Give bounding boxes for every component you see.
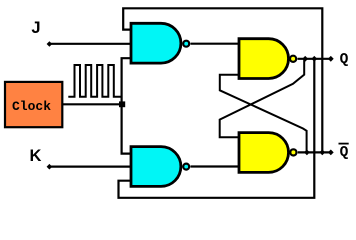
- NAND gate G4 (Q-bar latch gate, yellow): [239, 133, 289, 173]
- wire Q-bar output line: [298, 151, 331, 153]
- svg-text:J: J: [31, 19, 40, 37]
- wire Q cross-coupling to G4 upper input: [220, 59, 305, 137]
- G4 output bubble: [290, 149, 296, 155]
- node Q junction 1 (to cross-coupling): [302, 56, 308, 62]
- NAND gate G1 (J steering gate, cyan): [131, 23, 181, 63]
- clock generator box: [5, 82, 62, 127]
- G1 output bubble: [183, 41, 189, 47]
- wire J to G1 middle input: [49, 43, 131, 45]
- node Q-bar output terminal: [328, 150, 334, 156]
- node clock junction: [119, 101, 125, 107]
- G2 output bubble: [183, 164, 189, 170]
- NAND gate G3 (Q latch gate, yellow): [239, 39, 288, 79]
- svg-text:K: K: [30, 147, 42, 165]
- wire Q-bar cross-coupling to G3 lower input: [220, 75, 307, 153]
- wire K to G2 middle input: [49, 166, 131, 168]
- node Q-bar junction 2 (to Q-bar feedback): [319, 150, 325, 156]
- node Q output terminal: [328, 56, 334, 62]
- wire clock box to junction: [63, 103, 122, 105]
- svg-text:Q: Q: [340, 145, 349, 161]
- node Q junction 2 (to Q feedback): [311, 56, 317, 62]
- node K input terminal: [47, 164, 53, 170]
- clock waveform: [68, 65, 121, 97]
- wire G1 output to G3 input: [191, 43, 240, 45]
- wire clock vertical bus (G1 lower input to G2 upper input): [122, 58, 131, 153]
- wire Q output line: [298, 58, 331, 60]
- wire Q-bar feedback (top frame: from Q-bar node up right side, across top, into G1 top input): [123, 8, 322, 152]
- svg-text:Q: Q: [340, 52, 349, 68]
- NAND gate G2 (K steering gate, cyan): [131, 147, 181, 187]
- wire Q feedback (bottom frame: from Q node dot down right side, across bottom, into G2 bottom input): [119, 59, 315, 198]
- node J input terminal: [47, 41, 53, 47]
- node Q-bar junction 1 (to cross-coupling): [304, 150, 310, 156]
- svg-text:Clock: Clock: [12, 99, 51, 114]
- output label Q-bar overbar: [339, 143, 349, 145]
- G3 output bubble: [290, 56, 296, 62]
- wire G2 output to G4 input: [191, 165, 240, 167]
